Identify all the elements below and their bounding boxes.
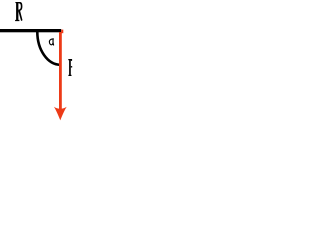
wire horizontal bar R [0, 29, 61, 32]
force arrow F (shaft) [59, 32, 62, 113]
label alpha [49, 39, 53, 45]
label R [15, 2, 22, 21]
angle arc [37, 32, 60, 65]
force arrow F (head) [54, 107, 67, 121]
background [0, 0, 127, 122]
force arrow F (corner nub) [61, 30, 63, 34]
label F [68, 59, 72, 76]
